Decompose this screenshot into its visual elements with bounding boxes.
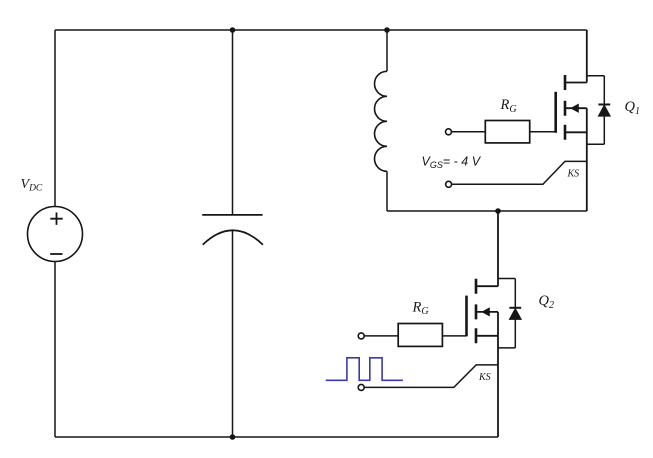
svg-text:KS: KS: [478, 372, 491, 383]
svg-text:VGS= - 4 V: VGS= - 4 V: [422, 154, 482, 170]
svg-text:RG: RG: [412, 299, 429, 317]
svg-text:Q2: Q2: [539, 293, 554, 311]
svg-text:RG: RG: [500, 97, 517, 115]
svg-text:Q1: Q1: [625, 99, 640, 117]
svg-text:VDC: VDC: [21, 177, 43, 194]
svg-text:KS: KS: [567, 168, 580, 179]
